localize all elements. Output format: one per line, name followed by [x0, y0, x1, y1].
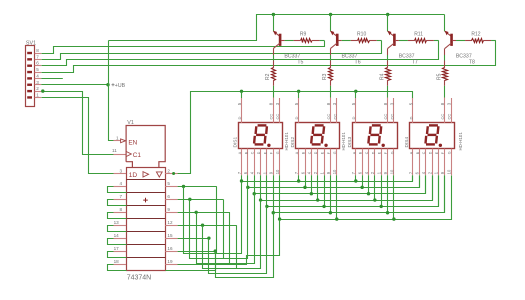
pin 4 DIS4 segment C [421, 149, 426, 176]
wire pin15 bottom snake [209, 207, 267, 274]
wire pin5 drop DIS2 [298, 91, 300, 98]
pin 3 V1 [114, 168, 127, 173]
junction pin5 rail DIS1 [240, 90, 243, 93]
label BC337 T7 [399, 53, 418, 65]
transistor T7 BC337 [387, 31, 414, 55]
pin 7 DIS1 segment A [237, 149, 242, 176]
junction rail1 DIS1 [240, 179, 243, 182]
wire base R11 to bus [434, 40, 439, 42]
wire drop DIS4 col5 [438, 175, 440, 206]
svg-text:C1: C1 [133, 152, 142, 159]
wire SV1 pin5 to R12 bus [42, 41, 496, 73]
svg-text:7: 7 [120, 194, 123, 199]
svg-text:DIS3: DIS3 [347, 137, 353, 148]
svg-text:DIS2: DIS2 [290, 137, 296, 148]
pin 10 DIS4 segment G [446, 149, 451, 176]
wire V1 pin19 to rail G [178, 220, 280, 265]
svg-text:CC: CC [383, 114, 388, 120]
junction rail4 DIS2 [316, 198, 319, 201]
pin 8 DIS4 [440, 98, 445, 123]
pin 3 DIS1 [275, 98, 280, 123]
pin 1 DIS2 segment E [319, 149, 324, 176]
wire pin5 drop DIS3 [355, 91, 357, 98]
svg-text:C: C [422, 151, 426, 154]
svg-text:4: 4 [36, 73, 39, 78]
pin 3 DIS2 [332, 98, 337, 123]
wire drop DIS2 col3 [311, 175, 313, 193]
segment rail C [255, 176, 426, 194]
wire R4 to DIS3 pin8 [387, 86, 389, 98]
svg-text:T7: T7 [412, 60, 418, 66]
pin 5 DIS3 [351, 98, 356, 123]
junction rail2 DIS1 [246, 186, 249, 189]
segment rail G [280, 176, 452, 220]
wire base R9 to bus [320, 40, 325, 42]
pin 1 DIS1 segment E [262, 149, 267, 176]
svg-text:11: 11 [112, 148, 117, 153]
svg-text:D: D [294, 117, 299, 120]
wire drop DIS3 col3 [368, 175, 370, 193]
wire pin12 loop leg [236, 225, 238, 268]
wire pin9 loop leg [229, 212, 231, 263]
junction rail1 DIS2 [297, 179, 300, 182]
wire drop DIS3 col7 [393, 175, 395, 219]
svg-text:7: 7 [36, 54, 39, 59]
pin 8 DIS1 [269, 98, 274, 123]
junction pin15 [207, 236, 210, 239]
junction rail2 DIS3 [360, 186, 363, 189]
transistor T8 BC337 [445, 31, 472, 55]
transistor T6 BC337 [330, 31, 357, 55]
svg-text:10: 10 [332, 169, 337, 174]
register V1 74374N [112, 120, 165, 270]
svg-text:8: 8 [120, 207, 123, 212]
pin 8 DIS2 [326, 98, 331, 123]
wire drop DIS2 col1 [298, 175, 300, 181]
pin 7 DIS3 segment A [351, 149, 356, 176]
wire V1 pin5 row [178, 186, 217, 188]
pin 6 DIS2 segment B [300, 149, 305, 176]
pin 9 DIS2 segment F [326, 149, 331, 176]
svg-text:1: 1 [116, 136, 119, 141]
svg-text:1: 1 [36, 92, 39, 97]
connector SV1 [26, 40, 42, 106]
wire V1 pin15 row [178, 238, 209, 240]
svg-text:G: G [390, 151, 394, 154]
display DIS1 HD-H101 [239, 123, 283, 149]
svg-text:C: C [365, 151, 369, 154]
junction pin6 [188, 198, 191, 201]
pin 14 V1 [114, 233, 127, 239]
transistor T5 BC337 [273, 31, 300, 55]
junction SV1 pin2 [41, 89, 44, 92]
junction rail4 DIS1 [259, 198, 262, 201]
wire pin5 bottom snake [184, 182, 242, 254]
svg-text:HD-H101: HD-H101 [458, 132, 463, 151]
pin 7 DIS2 segment A [294, 149, 299, 176]
svg-text:1D: 1D [129, 172, 138, 179]
pin 2 DIS2 segment D [313, 149, 318, 176]
wire R2 to DIS1 pin8 [273, 86, 275, 98]
junction +UB [106, 83, 109, 86]
svg-text:D: D [371, 151, 375, 154]
pin 3 DIS4 [447, 98, 452, 123]
wire drop DIS4 col1 [412, 175, 414, 181]
wire SV1 pin3 +UB [41, 84, 108, 86]
pin 9 DIS3 segment F [383, 149, 388, 176]
pin 4 DIS3 segment C [364, 149, 369, 176]
junction top rail T7 [386, 13, 389, 16]
pin 7 DIS4 segment A [408, 149, 413, 176]
wire drop DIS4 col2 [419, 175, 421, 187]
svg-text:D: D [408, 117, 413, 120]
resistor R11 [414, 31, 434, 42]
wire pin5 drop DIS1 [241, 91, 243, 98]
wire drop DIS1 col4 [260, 175, 262, 200]
junction rail5 DIS2 [322, 205, 325, 208]
svg-text:5: 5 [167, 181, 170, 186]
pin 5 DIS1 [237, 98, 242, 123]
svg-text:9: 9 [167, 207, 170, 212]
wire drop DIS2 col6 [330, 175, 332, 212]
wire hook pin 4 [108, 187, 127, 193]
wire hook pin 18 [108, 265, 127, 271]
pin 6 DIS3 segment B [358, 149, 363, 176]
svg-text:BC337: BC337 [456, 53, 472, 59]
wire pin12 bottom snake [203, 201, 261, 269]
svg-text:10: 10 [389, 169, 394, 174]
junction pin5 [182, 185, 185, 188]
svg-text:G: G [276, 151, 280, 154]
pin 18 V1 [114, 259, 127, 265]
pin 2 V1 [165, 168, 177, 173]
svg-text:2: 2 [167, 168, 170, 173]
pin 4 DIS2 segment C [307, 149, 312, 176]
wire drop DIS2 col2 [305, 175, 307, 187]
pin 16 V1 [165, 246, 177, 252]
pin 9 DIS4 segment F [440, 149, 445, 176]
svg-text:10: 10 [275, 169, 280, 174]
wire drop DIS3 col2 [362, 175, 364, 187]
svg-text:15: 15 [167, 233, 173, 238]
pin 11 C1 stub [113, 154, 126, 156]
wire drop DIS1 col3 [254, 175, 256, 193]
pin 19 V1 [165, 259, 177, 265]
svg-text:DIS1: DIS1 [233, 137, 239, 148]
junction pin9 [195, 211, 198, 214]
wire SV1 pin2 to C1 [42, 92, 114, 155]
pin 2 DIS4 segment D [427, 149, 432, 176]
pin 1 DIS3 segment E [377, 149, 382, 176]
svg-text:D: D [429, 151, 433, 154]
junction top rail T6 [329, 13, 332, 16]
svg-text:HD-H101: HD-H101 [284, 132, 289, 151]
wire pin6 loop leg [223, 199, 225, 258]
pin 6 DIS1 segment B [243, 149, 248, 176]
svg-text:3: 3 [120, 168, 123, 173]
svg-text:CC: CC [269, 114, 274, 120]
wire drop DIS2 col5 [324, 175, 326, 206]
wire drop DIS2 col4 [317, 175, 319, 200]
wire V1 pin12 row [178, 225, 237, 227]
svg-text:3: 3 [36, 80, 39, 85]
wire drop DIS1 col7 [279, 175, 281, 219]
svg-text:8: 8 [36, 48, 39, 53]
resistor R3 [322, 61, 332, 86]
svg-text:R11: R11 [414, 31, 423, 37]
svg-text:G: G [448, 151, 452, 154]
pin 17 V1 [114, 246, 127, 252]
svg-text:5: 5 [36, 67, 39, 72]
wire emitter T6 [330, 55, 332, 61]
resistor R12 [471, 31, 491, 42]
svg-text:12: 12 [167, 220, 173, 225]
label BC337 T8 [456, 53, 475, 65]
svg-text:T6: T6 [355, 60, 361, 66]
wire SV1 pin1 to V1 pin3 [42, 98, 114, 174]
junction pin5 rail DIS2 [297, 90, 300, 93]
wire V1 pin9 row [178, 212, 230, 214]
pin 4 DIS1 segment C [250, 149, 255, 176]
net +UB to top rail [109, 15, 445, 41]
wire drop DIS1 col6 [273, 175, 275, 212]
junction rail3 DIS2 [310, 192, 313, 195]
resistor R9 [300, 31, 320, 42]
wire base R10 to bus [377, 40, 382, 42]
svg-text:17: 17 [114, 246, 120, 251]
svg-text:19: 19 [167, 259, 173, 264]
resistor R5 [436, 61, 447, 86]
pin 5 DIS4 [408, 98, 413, 123]
wire drop DIS4 col6 [444, 175, 446, 212]
net +UB vertical to EN [109, 41, 114, 141]
junction V1 pin2 wire [172, 172, 175, 175]
wire emitter T5 [273, 55, 275, 61]
svg-text:C: C [251, 151, 255, 154]
label BC337 T6 [342, 53, 361, 65]
junction pin12 [201, 224, 204, 227]
wire hook pin 17 [108, 252, 127, 258]
pin 5 DIS2 [294, 98, 299, 123]
wire drop DIS4 col3 [425, 175, 427, 193]
pin 4 V1 [114, 181, 127, 186]
wire R5 to DIS4 pin8 [444, 86, 446, 98]
wire emitter T8 [444, 55, 446, 61]
wire hook pin 8 [108, 213, 127, 219]
wire pin5 loop leg [216, 186, 218, 253]
segment rail E [267, 176, 439, 207]
display DIS4 HD-H101 [410, 123, 455, 149]
wire V1 gnd to pin16 net [166, 252, 216, 271]
wire V1 pin16 row [178, 251, 216, 253]
resistor R10 [357, 31, 377, 42]
junction rail4 DIS3 [373, 198, 376, 201]
junction rail5 DIS1 [265, 205, 268, 208]
pin 7 V1 [114, 194, 127, 199]
svg-text:D: D [314, 151, 318, 154]
svg-text:CC: CC [389, 114, 394, 120]
pin 12 V1 [165, 220, 177, 225]
wire drop DIS2 col7 [336, 175, 338, 219]
svg-text:CC: CC [326, 114, 331, 120]
pin 6 V1 [165, 194, 177, 199]
pin 1 DIS4 segment E [434, 149, 439, 176]
pin 3 DIS3 [389, 98, 394, 123]
wire SV1 pin6 to R11 bus [42, 41, 439, 66]
junction top rail T5 [272, 13, 275, 16]
wire pin6 bottom snake [190, 188, 248, 259]
svg-text:D: D [237, 117, 242, 120]
junction pin16 [214, 249, 217, 252]
wire pin16 bottom snake [216, 213, 274, 278]
svg-text:D: D [351, 117, 356, 120]
wire hook pin 13 [108, 226, 127, 232]
svg-text:18: 18 [114, 259, 120, 264]
wire R3 to DIS2 pin8 [330, 86, 332, 98]
wire collector T5 [273, 15, 275, 32]
svg-text:2: 2 [36, 86, 39, 91]
pin 9 V1 [165, 207, 177, 212]
wire drop DIS1 col1 [241, 175, 243, 181]
pin 13 V1 [114, 220, 127, 225]
pin 15 V1 [165, 233, 177, 239]
pin 2 DIS1 segment D [256, 149, 261, 176]
junction rail3 DIS1 [253, 192, 256, 195]
svg-text:R12: R12 [471, 31, 480, 37]
wire drop DIS3 col5 [381, 175, 383, 206]
wire hook pin 7 [108, 200, 127, 206]
pin 2 DIS3 segment D [370, 149, 375, 176]
wire V1 pin6 row [178, 199, 224, 201]
display DIS3 HD-H101 [353, 123, 398, 149]
segment rail F [274, 176, 445, 213]
svg-text:14: 14 [114, 233, 120, 238]
pin 1 EN stub [113, 140, 120, 142]
junction rail7 DIS2 [335, 217, 338, 220]
svg-text:BC337: BC337 [399, 53, 415, 59]
junction rail7 DIS3 [392, 217, 395, 220]
pin 10 DIS1 segment G [275, 149, 280, 176]
wire collector T7 [387, 15, 389, 32]
junction rail7 DIS1 [278, 217, 281, 220]
junction rail3 DIS3 [367, 192, 370, 195]
label +UB [112, 83, 126, 89]
display DIS2 HD-H101 [296, 123, 340, 149]
svg-text:4: 4 [120, 181, 123, 186]
svg-text:10: 10 [446, 169, 451, 174]
wire hook pin 14 [108, 239, 127, 245]
svg-text:BC337: BC337 [342, 53, 358, 59]
svg-text:+UB: +UB [115, 83, 126, 89]
svg-text:G: G [333, 151, 337, 154]
wire collector T8 [444, 15, 446, 32]
svg-text:T5: T5 [297, 60, 303, 66]
junction rail6 DIS3 [386, 211, 389, 214]
svg-text:6: 6 [36, 61, 39, 66]
wire SV1 pin7 to R10 bus [42, 41, 382, 60]
svg-text:T8: T8 [469, 60, 475, 66]
svg-text:EN: EN [128, 140, 137, 147]
junction rail6 DIS1 [272, 211, 275, 214]
wire collector T6 [330, 15, 332, 32]
svg-text:BC337: BC337 [284, 53, 300, 59]
segment rail D [261, 176, 433, 201]
resistor R2 [265, 61, 276, 86]
pin 9 DIS1 segment F [269, 149, 274, 176]
svg-text:C: C [308, 151, 312, 154]
segment rail A [242, 176, 413, 182]
resistor R4 [379, 61, 390, 86]
pin 5 V1 [165, 181, 177, 186]
segment rail B [248, 176, 420, 188]
svg-text:D: D [257, 151, 261, 154]
wire drop DIS3 col4 [374, 175, 376, 200]
svg-text:R9: R9 [300, 31, 307, 37]
wire drop DIS3 col1 [355, 175, 357, 181]
wire V1 pin2 to display pin5 rail [178, 92, 242, 174]
wire base R12 to bus [491, 40, 496, 42]
svg-text:R10: R10 [357, 31, 366, 37]
svg-text:CC: CC [440, 114, 445, 120]
junction rail2 DIS2 [303, 186, 306, 189]
svg-text:DIS4: DIS4 [404, 137, 410, 148]
wire drop DIS1 col2 [247, 175, 249, 187]
pin 8 DIS3 [383, 98, 388, 123]
wire SV1 pin8 to R9 bus [42, 41, 325, 54]
label BC337 T5 [284, 53, 303, 65]
wire drop DIS4 col4 [432, 175, 434, 200]
junction rail6 DIS2 [329, 211, 332, 214]
svg-text:16: 16 [167, 246, 173, 251]
pin 10 DIS2 segment G [332, 149, 337, 176]
svg-text:74374N: 74374N [127, 274, 152, 281]
pin 8 V1 [114, 207, 127, 212]
wire SV1 pin4 stub [41, 78, 63, 80]
pin 6 DIS4 segment B [415, 149, 420, 176]
svg-text:CC: CC [275, 114, 280, 120]
wire drop DIS1 col5 [266, 175, 268, 206]
junction rail1 DIS3 [354, 179, 357, 182]
wire pin9 bottom snake [197, 194, 255, 264]
junction pin5 rail DIS3 [354, 90, 357, 93]
svg-text:CC: CC [447, 114, 452, 120]
svg-text:13: 13 [114, 220, 120, 225]
svg-text:CC: CC [332, 114, 337, 120]
pin 10 DIS3 segment G [389, 149, 394, 176]
svg-text:HD-H101: HD-H101 [341, 132, 346, 151]
junction rail5 DIS3 [380, 205, 383, 208]
svg-text:6: 6 [167, 194, 170, 199]
wire emitter T7 [387, 55, 389, 61]
display pin5 rail [242, 92, 413, 99]
wire drop DIS3 col6 [387, 175, 389, 212]
